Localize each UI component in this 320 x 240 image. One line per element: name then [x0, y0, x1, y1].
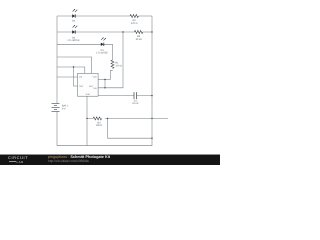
- wire row2 right of R3 to right rail: [143, 31, 152, 33]
- LED D1: [101, 37, 106, 46]
- wire feeder to IC left pin 1: [57, 76, 78, 78]
- capacitor C1: [134, 92, 137, 99]
- node rail bottom dot: [151, 138, 152, 139]
- node pin row B dot: [104, 87, 105, 88]
- node row2 tap dot: [122, 31, 123, 32]
- wire left rail below battery to bottom rail: [56, 112, 58, 145]
- wire right rail: [151, 16, 153, 138]
- footer title text: [48, 155, 110, 159]
- resistor R2: [130, 15, 138, 18]
- resistor R4: [93, 117, 101, 120]
- wire row1 (D4 row): [57, 15, 130, 17]
- resistor R3: [134, 31, 142, 34]
- wire connector between pin rows: [104, 80, 106, 88]
- svg-text:10 nF: 10 nF: [132, 102, 139, 105]
- wire capacitor row: [98, 95, 152, 97]
- wire R1 bottom jog to IC pin row: [110, 70, 112, 80]
- wire R4 row: [87, 117, 168, 119]
- wire feeder to IC top pin A: [57, 67, 85, 73]
- node R4 row left dot: [86, 118, 87, 119]
- wire IC right pin row B up to row2: [98, 32, 123, 88]
- svg-text:THR: THR: [93, 87, 98, 90]
- op-amp U1 555 timer box: [78, 73, 99, 96]
- footer url text: [48, 159, 89, 163]
- svg-text:VDD: VDD: [93, 76, 98, 79]
- CircuitLab logo: [8, 156, 28, 160]
- wire IC right pin row A: [98, 79, 110, 81]
- wire left V+ rail: [56, 16, 58, 103]
- node R1 pin row dot: [104, 79, 105, 80]
- svg-text:TRG: TRG: [79, 85, 84, 88]
- resistor R1 (vertical): [111, 60, 114, 68]
- node rail row2 dot: [151, 31, 152, 32]
- node R4 row tap dot: [107, 118, 108, 119]
- svg-text:10 kΩ: 10 kΩ: [135, 38, 142, 41]
- svg-text:470 Ω: 470 Ω: [115, 64, 122, 67]
- footer bar: [0, 154, 220, 166]
- svg-text:GND: GND: [86, 93, 91, 96]
- wire row3 (D1 row): [57, 44, 113, 60]
- svg-text:9 V: 9 V: [62, 108, 66, 111]
- battery BAT1: [52, 104, 60, 113]
- node rail R4 row dot: [151, 118, 152, 119]
- wire row2 (D2 row): [57, 31, 134, 33]
- svg-text:LTL-307EE: LTL-307EE: [68, 39, 80, 42]
- LED D4: [72, 9, 77, 18]
- svg-text:D4: D4: [72, 20, 76, 23]
- LED D2: [72, 25, 77, 34]
- node feeder dot: [73, 66, 74, 67]
- wire row1 right of R2 to right rail: [138, 15, 152, 17]
- svg-text:100 Ω: 100 Ω: [96, 124, 103, 127]
- wire feeder to IC top pin B: [57, 57, 92, 73]
- wire IC bottom pin to ground rail: [86, 96, 88, 146]
- wire bottom ground rail: [57, 138, 152, 146]
- node junction dots: [73, 31, 153, 139]
- wire R4 row tap down and right: [108, 118, 152, 138]
- node rail cap row dot: [151, 95, 152, 96]
- svg-text:470 Ω: 470 Ω: [131, 22, 138, 25]
- svg-text:LTL-307EE: LTL-307EE: [96, 51, 108, 54]
- wire drop to IC left pin 2: [74, 67, 78, 86]
